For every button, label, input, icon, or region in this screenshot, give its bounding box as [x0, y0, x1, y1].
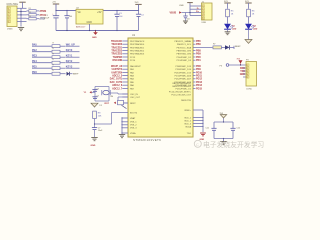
svg-text:PE3/TRACED0: PE3/TRACED0 [130, 43, 145, 46]
svg-text:PE5/TRACED2: PE5/TRACED2 [130, 50, 145, 53]
svg-text:VSS_2: VSS_2 [130, 125, 137, 127]
svg-text:VSS_3: VSS_3 [130, 128, 137, 130]
svg-text:PA13/JTMS/SWDIO: PA13/JTMS/SWDIO [172, 82, 191, 85]
svg-text:VSSA: VSSA [130, 132, 136, 135]
svg-text:100uF: 100uF [44, 18, 50, 20]
svg-text:5: 5 [8, 22, 9, 24]
svg-text:JTMS: JTMS [40, 10, 47, 13]
svg-text:CON5: CON5 [246, 88, 253, 90]
svg-text:USB: USB [179, 5, 184, 7]
svg-text:4: 4 [247, 74, 248, 76]
svg-text:R3: R3 [29, 16, 31, 18]
svg-text:PD12/FSMC_A17: PD12/FSMC_A17 [174, 78, 191, 81]
svg-text:VREF+: VREF+ [184, 110, 192, 112]
svg-text:PE2/TRACECK: PE2/TRACECK [130, 40, 145, 43]
svg-text:PA15/JTDI: PA15/JTDI [181, 99, 191, 102]
svg-text:PE6/TRACED3: PE6/TRACED3 [130, 53, 145, 56]
svg-text:VBAT: VBAT [130, 117, 136, 120]
svg-text:TRACED3: TRACED3 [111, 53, 123, 56]
svg-text:PB6: PB6 [196, 43, 201, 46]
svg-text:PD15/FSMC_D1: PD15/FSMC_D1 [176, 88, 192, 90]
svg-text:C: C [196, 142, 199, 147]
svg-text:ADC12_7: ADC12_7 [112, 87, 123, 90]
svg-text:TRACECK: TRACECK [111, 40, 123, 43]
svg-text:USB: USB [202, 22, 207, 24]
svg-text:GND: GND [91, 145, 96, 147]
svg-text:UART2TX: UART2TX [112, 68, 123, 71]
svg-text:DAC_OUT1: DAC_OUT1 [110, 78, 123, 81]
svg-text:D-: D- [197, 8, 200, 10]
svg-text:2: 2 [247, 68, 248, 70]
svg-text:TAMPER: TAMPER [113, 56, 123, 59]
svg-text:+5V: +5V [97, 11, 102, 14]
svg-text:3: 3 [203, 12, 204, 14]
svg-text:ADC12_3: ADC12_3 [112, 75, 123, 78]
svg-text:1: 1 [247, 65, 248, 67]
svg-text:OSC_OUT: OSC_OUT [130, 97, 141, 99]
svg-text:LED: LED [253, 29, 258, 31]
svg-text:VDD_1: VDD_1 [184, 117, 192, 119]
svg-text:2: 2 [8, 12, 9, 14]
svg-text:BOOT0: BOOT0 [130, 112, 138, 114]
svg-text:电子发烧友开发学习: 电子发烧友开发学习 [203, 140, 264, 149]
svg-text:VSS_1: VSS_1 [130, 122, 137, 124]
svg-text:VDD_2: VDD_2 [184, 120, 192, 122]
svg-text:PD10/FSMC_D15: PD10/FSMC_D15 [174, 72, 191, 74]
svg-text:GND: GND [240, 73, 246, 76]
svg-text:PB8/TIM4_CH3: PB8/TIM4_CH3 [176, 51, 191, 53]
svg-text:PD1: PD1 [196, 59, 201, 62]
svg-text:LED: LED [232, 29, 237, 31]
svg-text:BEEP: BEEP [73, 74, 79, 76]
svg-text:GND: GND [92, 37, 97, 39]
svg-text:OSC32IN: OSC32IN [112, 60, 122, 62]
svg-text:PB9/TIM4_CH4: PB9/TIM4_CH4 [176, 54, 191, 56]
svg-text:PD1/FSMC_D3: PD1/FSMC_D3 [177, 60, 192, 62]
svg-text:104: 104 [69, 16, 72, 18]
svg-text:PD8/FSMC_D13: PD8/FSMC_D13 [176, 66, 192, 68]
svg-text:PD0/FSMC_D2: PD0/FSMC_D2 [177, 57, 192, 59]
svg-text:+5V: +5V [52, 2, 56, 4]
svg-text:PC14-OSC32K_IN/RTC: PC14-OSC32K_IN/RTC [169, 91, 192, 93]
svg-text:3.3: 3.3 [99, 105, 102, 107]
svg-text:UART2RX: UART2RX [111, 71, 122, 74]
svg-text:PC15-OSC32K_OUT: PC15-OSC32K_OUT [171, 95, 191, 97]
svg-text:R7: R7 [213, 44, 215, 46]
svg-text:AMS1117: AMS1117 [76, 25, 86, 28]
svg-text:CON JTAG: CON JTAG [7, 3, 19, 6]
svg-text:PC13: PC13 [130, 57, 136, 59]
svg-text:R2: R2 [29, 12, 31, 14]
svg-text:C9: C9 [97, 96, 99, 98]
svg-text:104: 104 [187, 19, 190, 21]
svg-text:1: 1 [8, 8, 9, 10]
svg-text:4: 4 [8, 18, 9, 20]
svg-text:3: 3 [247, 71, 248, 73]
svg-text:PB7/I2C1_SDA: PB7/I2C1_SDA [177, 46, 192, 49]
svg-text:C8: C8 [97, 88, 99, 90]
svg-text:GND: GND [87, 21, 93, 24]
svg-text:VDDA: VDDA [185, 125, 191, 128]
svg-text:PB6/I2C1_SCL: PB6/I2C1_SCL [177, 44, 192, 46]
svg-text:R1: R1 [29, 8, 31, 10]
svg-text:OSC_IN: OSC_IN [130, 94, 138, 96]
svg-text:2: 2 [203, 9, 204, 11]
svg-text:BEEP: BEEP [235, 46, 241, 48]
svg-text:GND: GND [200, 139, 205, 141]
svg-text:PE4/TRACED1: PE4/TRACED1 [130, 46, 145, 49]
svg-text:PC14: PC14 [130, 60, 136, 62]
svg-text:PA14/JTCK/SWCLK: PA14/JTCK/SWCLK [172, 85, 191, 88]
svg-text:VBUS: VBUS [170, 12, 177, 15]
svg-text:PB5/I2C1_SMBAI: PB5/I2C1_SMBAI [174, 40, 191, 43]
svg-text:TDO: TDO [187, 133, 192, 135]
svg-text:3: 3 [8, 15, 9, 17]
svg-text:TRACED0: TRACED0 [111, 43, 123, 46]
svg-text:ADC12_6: ADC12_6 [112, 84, 123, 87]
svg-text:PD11/FSMC_A16: PD11/FSMC_A16 [175, 75, 192, 78]
svg-text:PA0-WKUP: PA0-WKUP [130, 65, 141, 68]
svg-text:NRST: NRST [130, 103, 136, 105]
svg-text:STM32F103VET6: STM32F103VET6 [133, 138, 161, 142]
svg-text:TRACED2: TRACED2 [111, 50, 123, 53]
svg-text:5: 5 [247, 77, 248, 79]
svg-text:WKUP_A0: WKUP_A0 [111, 65, 123, 68]
svg-text:RST: RST [105, 103, 110, 105]
svg-text:TRACED1: TRACED1 [111, 46, 123, 49]
svg-text:4: 4 [203, 15, 204, 17]
svg-text:DAC_OUT2: DAC_OUT2 [110, 81, 123, 84]
svg-text:PD15: PD15 [196, 87, 203, 90]
svg-text:10uF: 10uF [98, 130, 103, 132]
svg-text:JTAG: JTAG [7, 27, 13, 30]
svg-text:PD9/FSMC_D14: PD9/FSMC_D14 [176, 69, 192, 71]
svg-text:VDD_3: VDD_3 [184, 123, 192, 125]
svg-text:1: 1 [203, 6, 204, 8]
svg-text:5: 5 [203, 18, 204, 20]
